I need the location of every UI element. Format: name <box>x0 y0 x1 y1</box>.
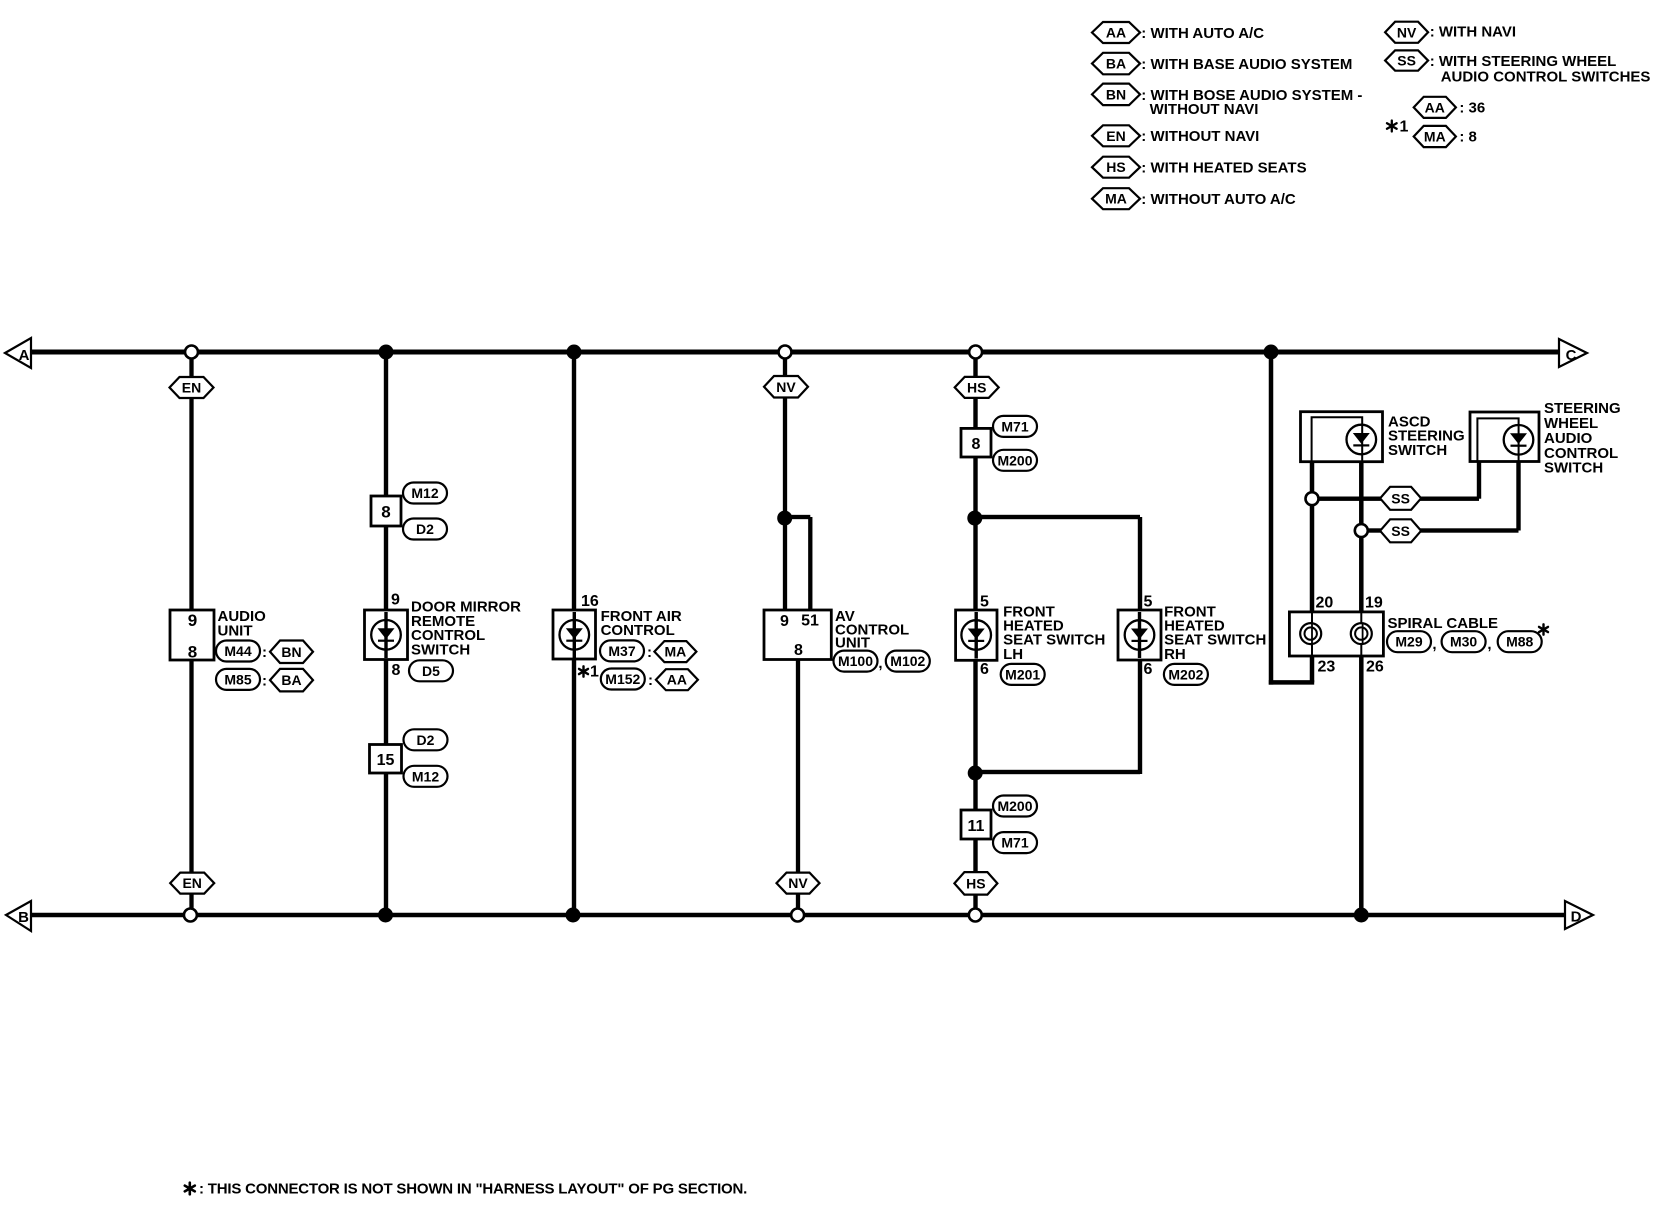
connector M71 upper heated seat <box>993 416 1037 437</box>
wire heated seat RH pin 6 down <box>1138 658 1142 774</box>
wire heated seat branch split top <box>974 515 1141 519</box>
svg-text:EN: EN <box>182 380 201 396</box>
wire steering elbow horizontal <box>1269 680 1314 685</box>
svg-text:M44: M44 <box>224 643 251 659</box>
svg-text:: WITHOUT NAVI: : WITHOUT NAVI <box>1141 128 1259 145</box>
wire branch front air control <box>572 352 576 915</box>
connector M85 with tag BA <box>216 669 313 692</box>
wire spiral cable pin 26 to bottom bus <box>1359 654 1364 915</box>
connector M12 upper door mirror <box>403 483 447 504</box>
spiral cable box <box>1289 612 1383 656</box>
wire branch EN audio unit <box>189 352 193 915</box>
svg-text:M152: M152 <box>605 671 640 687</box>
pin 23 spiral cable <box>1318 659 1336 676</box>
svg-text:: WITH HEATED SEATS: : WITH HEATED SEATS <box>1141 160 1306 177</box>
svg-text:M71: M71 <box>1001 835 1028 851</box>
wire SS line 1 <box>1312 461 1481 501</box>
wire SS line 2 <box>1361 461 1521 533</box>
tag HS bottom <box>954 872 997 895</box>
svg-text::: : <box>648 672 653 689</box>
svg-text:M202: M202 <box>1168 666 1203 682</box>
svg-text:SPIRAL CABLE: SPIRAL CABLE <box>1388 615 1499 632</box>
svg-text:BN: BN <box>1106 86 1126 102</box>
svg-text:SWITCH: SWITCH <box>1388 442 1447 459</box>
legend tag HS <box>1092 157 1307 178</box>
junction AV control split <box>777 511 792 526</box>
svg-text:8: 8 <box>794 642 803 659</box>
wire steering branch from top bus <box>1269 352 1274 685</box>
legend tag BA <box>1092 53 1352 75</box>
svg-text:M100: M100 <box>838 653 873 669</box>
legend note *1 <box>1387 97 1485 147</box>
wire spiral cable pin 19 to ASCD switch diode <box>1359 460 1364 613</box>
svg-text:: WITH AUTO A/C: : WITH AUTO A/C <box>1141 25 1264 42</box>
svg-text:MA: MA <box>1424 129 1446 145</box>
node EN tap top bus <box>185 346 198 359</box>
svg-text:19: 19 <box>1365 594 1383 611</box>
legend tag BN <box>1092 84 1362 118</box>
label front air control <box>601 608 682 639</box>
pin 6 heated seat RH <box>1144 661 1153 678</box>
svg-text:HS: HS <box>1106 159 1125 175</box>
connector D5 door mirror switch <box>409 660 453 681</box>
steering wheel audio control switch box with diode <box>1470 412 1539 462</box>
svg-text:NV: NV <box>788 875 808 891</box>
wire AV control unit stub to pin 51 <box>783 515 812 612</box>
node HS tap top bus <box>969 346 982 359</box>
connector M200 upper heated seat <box>993 450 1037 471</box>
front heated seat switch RH box with diode <box>1118 610 1161 660</box>
arrow C harness continuation <box>1559 339 1587 367</box>
arrow B harness continuation <box>6 901 31 931</box>
wire spiral cable pin 20 to ASCD switch <box>1310 460 1315 613</box>
connector box 15 door mirror <box>370 745 402 774</box>
svg-text:BN: BN <box>281 644 301 660</box>
svg-text:UNIT: UNIT <box>218 622 253 639</box>
junction spiral cable bottom bus <box>1354 908 1369 923</box>
svg-text::: : <box>262 673 267 690</box>
svg-text:NV: NV <box>776 379 796 395</box>
svg-text:5: 5 <box>980 594 989 611</box>
svg-text:SS: SS <box>1391 490 1410 506</box>
svg-text:26: 26 <box>1366 659 1384 676</box>
label steering wheel audio control switch <box>1544 400 1621 476</box>
svg-text:HS: HS <box>966 875 985 891</box>
svg-text:: 36: : 36 <box>1459 99 1485 116</box>
svg-text:6: 6 <box>980 661 989 678</box>
label spiral cable <box>1388 615 1499 632</box>
svg-text:15: 15 <box>377 752 395 769</box>
label AV control unit <box>835 608 909 652</box>
front air control box with diode <box>553 610 596 659</box>
svg-text:11: 11 <box>968 818 985 835</box>
svg-text:23: 23 <box>1318 659 1336 676</box>
junction door mirror top bus <box>379 345 394 360</box>
connector M201 heated seat LH <box>1001 664 1045 685</box>
svg-text:8: 8 <box>381 503 390 522</box>
svg-text:AA: AA <box>667 672 687 688</box>
pin 5 heated seat LH <box>980 594 989 611</box>
svg-text:,: , <box>1487 636 1491 653</box>
svg-text:: 8: : 8 <box>1459 129 1477 146</box>
wire heated seat RH pin 5 down <box>1138 517 1142 612</box>
wire heated seat LH pin 6 down <box>973 658 977 915</box>
connector D2 lower door mirror <box>404 729 448 750</box>
front heated seat switch LH box with diode <box>956 610 997 660</box>
node SS junction 1 <box>1306 492 1319 505</box>
svg-text:M29: M29 <box>1395 634 1422 650</box>
svg-text:BA: BA <box>1106 56 1126 72</box>
legend tag EN <box>1092 125 1259 146</box>
svg-text:8: 8 <box>392 662 401 679</box>
svg-text:RH: RH <box>1164 646 1186 663</box>
svg-text:LH: LH <box>1003 646 1023 663</box>
pin 9 door mirror <box>391 592 400 609</box>
svg-text:A: A <box>19 347 30 364</box>
node EN tap bottom bus <box>184 909 197 922</box>
svg-text:8: 8 <box>188 643 197 662</box>
footnote asterisk <box>185 1180 747 1197</box>
svg-text:1: 1 <box>590 664 599 681</box>
tag NV top <box>764 376 808 398</box>
door mirror remote control switch D5 box with diode <box>365 610 408 660</box>
svg-text:,: , <box>878 655 882 672</box>
label front heated seat switch RH <box>1164 603 1266 663</box>
junction front air top bus <box>567 345 582 360</box>
arrow A harness continuation <box>5 338 31 368</box>
svg-text:8: 8 <box>972 436 981 453</box>
connector M71 lower heated seat <box>993 832 1037 853</box>
svg-text:M12: M12 <box>412 768 439 784</box>
svg-text:M88: M88 <box>1506 634 1533 650</box>
svg-text:D2: D2 <box>416 521 434 537</box>
svg-text:M200: M200 <box>997 798 1032 814</box>
svg-text:51: 51 <box>801 613 819 630</box>
wire spiral cable pin 23 up <box>1310 654 1315 682</box>
legend tag MA <box>1092 188 1296 209</box>
svg-text::: : <box>647 644 652 661</box>
label door mirror remote control switch <box>411 599 521 659</box>
connector box 8 heated seat <box>961 428 991 457</box>
svg-text:9: 9 <box>391 592 400 609</box>
connector M200 lower heated seat <box>993 796 1037 817</box>
svg-text:20: 20 <box>1316 594 1334 611</box>
svg-text:SS: SS <box>1391 523 1410 539</box>
svg-text:EN: EN <box>182 875 201 891</box>
svg-text:MA: MA <box>1105 191 1127 207</box>
wire top bus A to C <box>31 350 1559 355</box>
svg-text:M37: M37 <box>608 643 635 659</box>
svg-text:M102: M102 <box>890 653 925 669</box>
svg-text:M30: M30 <box>1450 634 1477 650</box>
svg-text:16: 16 <box>581 593 599 610</box>
svg-text:: WITH BASE AUDIO SYSTEM: : WITH BASE AUDIO SYSTEM <box>1141 56 1352 73</box>
svg-text:6: 6 <box>1144 661 1153 678</box>
svg-text:BA: BA <box>281 672 301 688</box>
pin 20 spiral cable <box>1316 594 1334 611</box>
wire branch heated seat LH upper <box>973 352 977 612</box>
svg-text:CONTROL: CONTROL <box>601 622 675 639</box>
svg-text:SWITCH: SWITCH <box>1544 460 1603 477</box>
connector box 11 heated seat <box>961 810 991 839</box>
footnote *1 front air control <box>579 664 599 681</box>
svg-text:AA: AA <box>1106 25 1126 41</box>
svg-text:1: 1 <box>1400 118 1409 135</box>
svg-text:UNIT: UNIT <box>835 635 870 652</box>
svg-text:MA: MA <box>665 644 687 660</box>
svg-text:AA: AA <box>1425 99 1445 115</box>
wire branch AV control unit pin 9 <box>783 352 787 612</box>
label front heated seat switch LH <box>1003 603 1105 663</box>
pin 26 spiral cable <box>1366 659 1384 676</box>
legend tag SS <box>1385 50 1650 85</box>
pin 5 heated seat RH <box>1144 594 1153 611</box>
svg-text::: : <box>262 644 267 661</box>
svg-text:: WITH NAVI: : WITH NAVI <box>1430 24 1516 41</box>
svg-text:9: 9 <box>780 613 789 630</box>
pin 16 front air control <box>581 593 599 610</box>
svg-text:M201: M201 <box>1005 666 1040 682</box>
connector M202 heated seat RH <box>1164 664 1208 685</box>
connector M29 M30 M88 spiral cable <box>1387 624 1548 653</box>
legend tag AA <box>1092 22 1264 43</box>
svg-text:D2: D2 <box>417 732 435 748</box>
wire branch door mirror remote control switch <box>384 352 388 915</box>
node SS junction 2 <box>1355 524 1368 537</box>
connector M12 lower door mirror <box>404 766 448 787</box>
svg-text:SS: SS <box>1397 53 1416 69</box>
node NV tap bottom bus <box>791 909 804 922</box>
svg-text:,: , <box>1432 636 1436 653</box>
svg-text:WITHOUT NAVI: WITHOUT NAVI <box>1150 101 1259 118</box>
svg-text:: THIS CONNECTOR IS NOT SHOWN: : THIS CONNECTOR IS NOT SHOWN IN "HARNES… <box>199 1180 747 1197</box>
tag HS top <box>955 377 999 398</box>
svg-text:D: D <box>1571 909 1582 926</box>
pin 6 heated seat LH <box>980 661 989 678</box>
svg-text:B: B <box>18 909 29 926</box>
svg-text:AUDIO CONTROL SWITCHES: AUDIO CONTROL SWITCHES <box>1441 68 1651 85</box>
svg-text:5: 5 <box>1144 594 1153 611</box>
tag SS line 2 <box>1380 519 1421 542</box>
connector M37 with tag MA <box>600 640 696 662</box>
junction front air bottom bus <box>566 908 581 923</box>
tag EN top <box>170 377 214 398</box>
svg-text:EN: EN <box>1106 128 1125 144</box>
svg-text:HS: HS <box>967 379 986 395</box>
wire bottom bus B to D <box>31 913 1565 918</box>
svg-text:C: C <box>1566 347 1577 364</box>
arrow D harness continuation <box>1565 901 1593 929</box>
node NV tap top bus <box>779 346 792 359</box>
junction steering top bus <box>1264 345 1279 360</box>
pin 19 spiral cable <box>1365 594 1383 611</box>
svg-text:NV: NV <box>1397 24 1417 40</box>
ASCD steering switch box with diode <box>1301 412 1383 462</box>
junction heated seat split top <box>967 511 982 526</box>
tag SS line 1 <box>1380 487 1421 510</box>
junction heated seat merge bottom <box>968 766 983 781</box>
tag NV bottom <box>777 873 820 894</box>
svg-text:M71: M71 <box>1001 418 1028 434</box>
junction door mirror bottom bus <box>378 908 393 923</box>
svg-text:M200: M200 <box>997 452 1032 468</box>
wire AV control unit pin 8 down <box>796 658 800 915</box>
svg-text:SWITCH: SWITCH <box>411 641 470 658</box>
pin 8 door mirror <box>392 662 401 679</box>
svg-text:: WITHOUT AUTO A/C: : WITHOUT AUTO A/C <box>1141 191 1296 208</box>
connector M44 with tag BN <box>216 641 313 664</box>
label audio unit <box>218 608 267 639</box>
wire heated seat branch merge bottom <box>974 770 1141 774</box>
connector box 8 door mirror <box>371 496 401 526</box>
audio unit box M44/M85 <box>170 610 214 662</box>
connector D2 upper door mirror <box>403 519 447 540</box>
label ASCD steering switch <box>1388 413 1465 459</box>
svg-text:D5: D5 <box>422 663 440 679</box>
connector M152 with tag AA <box>601 669 698 691</box>
svg-text:M85: M85 <box>224 671 251 687</box>
node HS tap bottom bus <box>969 909 982 922</box>
svg-text:M12: M12 <box>411 485 438 501</box>
AV control unit box M100/M102 <box>764 610 831 660</box>
tag EN bottom <box>170 873 214 894</box>
svg-text:9: 9 <box>188 611 197 630</box>
connector M100 and M102 <box>834 651 930 672</box>
legend tag NV <box>1385 22 1516 43</box>
